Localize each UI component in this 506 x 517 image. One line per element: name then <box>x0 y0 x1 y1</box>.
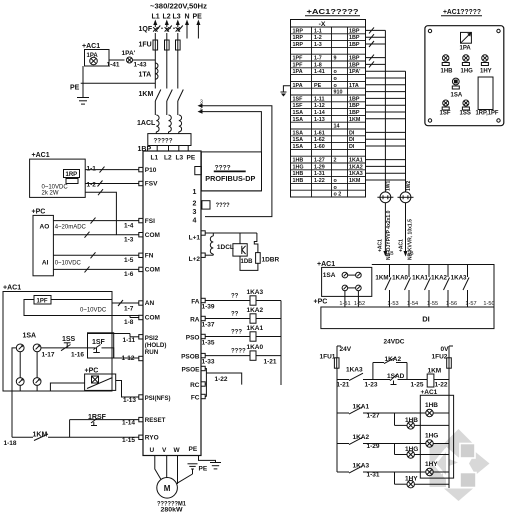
svg-text:1-12: 1-12 <box>314 103 325 109</box>
svg-text:1-22: 1-22 <box>314 178 325 184</box>
inverter right terminals FA RA PSO PSOB PSOE RC FC <box>201 298 205 302</box>
ammeter 1PA box <box>85 50 110 67</box>
svg-text:0~10VDC: 0~10VDC <box>80 308 107 314</box>
svg-text:1PF: 1PF <box>293 56 304 62</box>
svg-text:1PA': 1PA' <box>349 69 360 75</box>
wire 1-2 <box>85 183 139 185</box>
svg-text:PE: PE <box>193 14 203 21</box>
motor wire W <box>177 456 179 485</box>
svg-text:1SA: 1SA <box>293 144 304 150</box>
relay rail <box>280 301 282 386</box>
svg-text:1-51: 1-51 <box>339 301 350 307</box>
svg-text:1ACL: 1ACL <box>137 120 156 127</box>
svg-text:1-16: 1-16 <box>71 352 84 359</box>
wire 1-13 <box>50 383 84 391</box>
svg-text:1KM: 1KM <box>349 117 361 123</box>
svg-text:4~20mADC: 4~20mADC <box>55 225 87 231</box>
wire L+2 <box>205 254 213 256</box>
svg-text:PSOB: PSOB <box>181 354 200 361</box>
svg-text:L3: L3 <box>173 14 181 21</box>
svg-text:1TA: 1TA <box>139 72 152 79</box>
svg-text:1-52: 1-52 <box>354 301 365 307</box>
svg-text:1-27: 1-27 <box>367 413 380 420</box>
svg-text:+AC1: +AC1 <box>3 285 21 292</box>
svg-text:1TA: 1TA <box>349 83 359 89</box>
svg-text:1-35: 1-35 <box>202 340 215 347</box>
panel meter 1PA <box>461 32 472 43</box>
wire 1-17 <box>41 347 64 349</box>
input filter box (Chinese label) <box>148 134 191 146</box>
svg-text:1BP: 1BP <box>349 62 360 68</box>
svg-text:14: 14 <box>334 124 340 130</box>
svg-text:1DBR: 1DBR <box>262 257 280 264</box>
svg-text:1-14: 1-14 <box>314 110 325 116</box>
svg-text:1BP: 1BP <box>138 146 152 153</box>
svg-text:1-3: 1-3 <box>124 237 134 244</box>
svg-text:1PF: 1PF <box>37 299 48 305</box>
svg-text:COM: COM <box>145 232 160 239</box>
relay coil 1KA2 row <box>205 318 250 320</box>
svg-text:(HOLD): (HOLD) <box>145 342 167 349</box>
bus connector on pins 2-3 <box>202 201 210 209</box>
svg-text:1BP: 1BP <box>349 28 360 34</box>
svg-text:1FU2: 1FU2 <box>432 354 448 361</box>
panel lamp 1HB <box>443 55 449 61</box>
svg-text:1SAD: 1SAD <box>387 373 405 380</box>
svg-text:1SS: 1SS <box>62 336 76 343</box>
svg-text:????: ???? <box>215 165 231 172</box>
svg-text:1BP: 1BP <box>349 35 360 41</box>
wire 1-14 <box>97 419 139 421</box>
svg-text:0V: 0V <box>441 346 450 353</box>
svg-text:PE: PE <box>199 466 208 473</box>
svg-text:1QF: 1QF <box>139 26 153 33</box>
svg-text:1SA: 1SA <box>23 333 37 340</box>
selector switch 1SA box <box>322 267 372 296</box>
svg-text:+AC1: +AC1 <box>82 43 100 50</box>
svg-text:????: ???? <box>231 349 246 355</box>
table stubs to analog cable <box>366 29 386 31</box>
svg-text:1KA3: 1KA3 <box>451 275 467 282</box>
svg-text:1SA: 1SA <box>293 110 304 116</box>
svg-text:1: 1 <box>193 189 197 196</box>
svg-text:FSV: FSV <box>145 181 158 188</box>
aux contact 1KA3 to DI <box>467 265 469 278</box>
wire 1-3 to COM <box>53 234 138 236</box>
svg-text:1SA: 1SA <box>323 272 336 279</box>
svg-text:1HB: 1HB <box>441 69 454 75</box>
svg-text:1HB: 1HB <box>293 178 304 184</box>
svg-text:1-23: 1-23 <box>365 382 378 389</box>
svg-text:1-31: 1-31 <box>367 472 380 479</box>
svg-text:AI: AI <box>42 260 49 267</box>
panel lamp 1HG <box>463 55 469 61</box>
svg-text:910: 910 <box>334 90 343 96</box>
wire 1-1 <box>85 169 139 171</box>
panel selector 1SA <box>452 78 459 85</box>
panel screws <box>428 29 431 32</box>
motor wire U <box>155 456 161 480</box>
svg-text:1PA: 1PA <box>293 69 303 75</box>
svg-text:COM: COM <box>145 267 160 274</box>
junction to panel lamp 1HG <box>394 444 396 455</box>
braking unit 1DB <box>239 233 241 244</box>
analog cable vertical <box>384 30 386 192</box>
svg-text:1-37: 1-37 <box>202 322 215 329</box>
wire 1-23 <box>363 379 384 381</box>
svg-text:1KM: 1KM <box>349 178 361 184</box>
svg-text:1-55: 1-55 <box>427 301 438 307</box>
svg-text:1-13: 1-13 <box>314 117 325 123</box>
svg-text:1-25: 1-25 <box>411 382 424 389</box>
svg-text:1-21: 1-21 <box>264 359 277 366</box>
svg-text:1HG: 1HG <box>425 433 438 440</box>
svg-text:???: ??? <box>231 330 242 336</box>
svg-text:1SA: 1SA <box>293 117 304 123</box>
aux contact 1KA2 to DI <box>447 265 449 278</box>
svg-text:FA: FA <box>191 299 200 306</box>
svg-text:1SF: 1SF <box>293 96 304 102</box>
branch contact 1KA2 <box>337 443 349 445</box>
svg-text:DI: DI <box>349 144 355 150</box>
potentiometer 1RP box <box>30 159 86 197</box>
svg-text:PSI2: PSI2 <box>145 335 159 342</box>
svg-text:??: ?? <box>231 312 239 318</box>
motor M1 <box>157 478 178 499</box>
svg-text:1BP: 1BP <box>349 103 360 109</box>
svg-text:+AC1: +AC1 <box>399 239 405 252</box>
aux contact 1KA1 to DI <box>428 265 430 278</box>
svg-text:1-8: 1-8 <box>314 62 322 68</box>
selector switch 1SA contacts <box>16 344 24 352</box>
svg-text:1-6: 1-6 <box>124 271 134 278</box>
pin 1 wire <box>201 190 261 192</box>
svg-text:1-11: 1-11 <box>123 337 136 344</box>
svg-text:W: W <box>174 447 181 454</box>
svg-text:1SA: 1SA <box>293 130 304 136</box>
DC reactor 1DCL <box>210 236 213 254</box>
wire tap to PROFIBUS pin1 <box>198 109 203 113</box>
wire PE of CT circuit <box>82 66 84 83</box>
svg-text:1-22: 1-22 <box>435 382 448 389</box>
svg-text:24VDC: 24VDC <box>384 339 405 346</box>
svg-text:+PC: +PC <box>32 209 46 216</box>
svg-text:1-11: 1-11 <box>314 96 325 102</box>
panel devices box +AC1 <box>3 292 112 392</box>
svg-text:1KA3: 1KA3 <box>353 463 370 470</box>
svg-text:L2: L2 <box>164 155 172 162</box>
svg-text:1KM: 1KM <box>428 368 442 375</box>
svg-text:1-50: 1-50 <box>483 301 494 307</box>
svg-text:9: 9 <box>334 56 337 62</box>
svg-text:+PC: +PC <box>85 368 99 375</box>
aux contact 1KM to DI <box>389 265 391 278</box>
svg-text:PE: PE <box>70 85 80 92</box>
svg-text:1RP: 1RP <box>293 42 304 48</box>
svg-text:1RP: 1RP <box>66 172 78 178</box>
svg-text:2k 2W: 2k 2W <box>42 191 59 197</box>
svg-text:L+1: L+1 <box>189 235 201 242</box>
wire L+1 <box>205 232 257 234</box>
svg-text:RC: RC <box>190 382 200 389</box>
cable W1 down wire <box>384 203 386 251</box>
svg-text:1SF: 1SF <box>92 339 106 346</box>
svg-text:1KA1: 1KA1 <box>349 158 363 164</box>
braking loop wire <box>240 256 258 270</box>
svg-text:L1: L1 <box>152 14 160 21</box>
svg-text:N: N <box>185 14 190 21</box>
ammeter 1PA symbol <box>90 57 98 65</box>
svg-text:1-43: 1-43 <box>134 62 147 69</box>
svg-text:RA: RA <box>190 317 200 324</box>
svg-text:AO: AO <box>40 224 50 231</box>
svg-text:NB-KVVR, 10x1.5: NB-KVVR, 10x1.5 <box>408 219 414 260</box>
svg-text:P10: P10 <box>145 167 157 174</box>
svg-text:1BP: 1BP <box>349 42 360 48</box>
svg-text:4: 4 <box>193 218 197 225</box>
wire PSOE common <box>205 369 206 397</box>
svg-text:DI: DI <box>349 137 355 143</box>
svg-text:1-56: 1-56 <box>446 301 457 307</box>
svg-text:1RP,1PF: 1RP,1PF <box>476 111 499 117</box>
svg-text:M: M <box>164 484 171 493</box>
svg-text:PE: PE <box>187 155 196 162</box>
wire tap to PROFIBUS pin4 <box>198 104 203 108</box>
wire 1-22 <box>434 379 449 381</box>
svg-text:1BP: 1BP <box>349 56 360 62</box>
relay coil 1KA0 row <box>205 355 250 357</box>
svg-text:PE: PE <box>189 446 198 453</box>
ground symbol <box>82 83 84 97</box>
svg-text:+AC1: +AC1 <box>378 239 384 252</box>
svg-text:3: 3 <box>200 100 203 106</box>
DI common bus <box>372 265 494 308</box>
incoming feeder arrows <box>153 20 157 26</box>
svg-text:1-41: 1-41 <box>314 69 325 75</box>
svg-text:????: ???? <box>216 202 230 209</box>
selector linkage wires <box>19 352 21 378</box>
svg-text:1HB: 1HB <box>293 171 304 177</box>
svg-text:1DB: 1DB <box>241 259 254 265</box>
svg-text:1KA1: 1KA1 <box>412 275 428 282</box>
braking resistor 1DBR <box>254 233 258 253</box>
svg-text:COM: COM <box>145 315 160 322</box>
svg-text:1KA0: 1KA0 <box>247 344 264 351</box>
branch contact 1KA1 <box>337 412 349 414</box>
wire 1-43 <box>133 59 156 61</box>
svg-text:1-1: 1-1 <box>87 166 97 173</box>
svg-text:+AC1?????: +AC1????? <box>307 9 359 16</box>
svg-text:FSI: FSI <box>145 218 155 225</box>
svg-text:1-29: 1-29 <box>314 164 325 170</box>
svg-text:1RP: 1RP <box>293 35 304 41</box>
potentiometer 1PF <box>34 296 51 305</box>
svg-text:1KA2: 1KA2 <box>349 164 363 170</box>
panel lamp 1HY <box>482 55 488 61</box>
svg-text:FN: FN <box>145 253 154 260</box>
svg-text:1-14: 1-14 <box>122 420 135 427</box>
svg-text:1-3: 1-3 <box>314 42 322 48</box>
svg-text:PSOE: PSOE <box>181 367 200 374</box>
svg-text:+PC: +PC <box>314 299 328 306</box>
filter output stubs <box>156 146 158 152</box>
wire from selector to 1KM aux <box>12 348 16 437</box>
panel button 1SS <box>463 100 469 106</box>
svg-text:1-41: 1-41 <box>107 62 120 69</box>
svg-text:1DCL: 1DCL <box>217 244 234 251</box>
branch contact 1KA3 <box>337 471 349 473</box>
svg-text:?????: ????? <box>154 138 173 145</box>
L+2 terminal <box>201 253 205 257</box>
svg-text:1PA: 1PA <box>460 46 472 52</box>
svg-text:RYO: RYO <box>145 435 159 442</box>
svg-text:L2: L2 <box>163 14 171 21</box>
svg-text:1BP: 1BP <box>349 96 360 102</box>
panel button 1SF <box>443 100 449 106</box>
wire 1-5 <box>53 254 138 256</box>
svg-text:PSO: PSO <box>186 335 200 342</box>
svg-text:??: ?? <box>231 294 239 300</box>
junction to panel lamp 1HY <box>394 472 396 484</box>
svg-text:1KA1: 1KA1 <box>247 325 264 332</box>
wire RC <box>205 383 206 385</box>
svg-text:1W1: 1W1 <box>386 181 392 192</box>
svg-text:1-33: 1-33 <box>202 359 215 366</box>
svg-text:1-18: 1-18 <box>4 440 17 447</box>
PLC analog IO box <box>33 215 53 275</box>
svg-text:1-7: 1-7 <box>314 56 322 62</box>
svg-text:1-29: 1-29 <box>367 443 380 450</box>
svg-text:1HY: 1HY <box>425 461 438 468</box>
svg-text:1SS: 1SS <box>460 111 471 117</box>
svg-text:1-39: 1-39 <box>202 304 215 311</box>
svg-text:1KM: 1KM <box>375 275 388 282</box>
svg-text:U: U <box>150 447 155 454</box>
svg-text:1KA2: 1KA2 <box>353 434 370 441</box>
terminal strip -X table <box>291 20 366 198</box>
wire 1-22 stub <box>206 373 241 385</box>
svg-text:~380/220V,50Hz: ~380/220V,50Hz <box>150 4 208 11</box>
svg-text:L+2: L+2 <box>189 256 201 263</box>
svg-text:1HG: 1HG <box>293 164 304 170</box>
wire N <box>186 24 188 39</box>
svg-text:1SF: 1SF <box>440 111 451 117</box>
svg-text:1-7: 1-7 <box>124 306 134 313</box>
wire 1-6 <box>53 268 138 270</box>
wire 1-52 <box>357 291 359 307</box>
wire 1-12 <box>102 348 139 358</box>
svg-text:24V: 24V <box>340 346 352 353</box>
cable W2 down wire <box>405 203 407 251</box>
svg-text:1-17: 1-17 <box>42 352 55 359</box>
watermark logo (decorative) <box>430 429 490 501</box>
PLC digital input card DI <box>321 307 494 329</box>
inverter PE ground <box>199 456 216 463</box>
panel door outline <box>425 26 504 126</box>
relay coil 1KA1 row <box>205 336 250 338</box>
wire FC <box>205 396 206 398</box>
L+1 terminal <box>201 231 205 235</box>
svg-text:1PF: 1PF <box>293 62 304 68</box>
svg-text:2: 2 <box>334 158 337 164</box>
svg-text:PSI(NFS): PSI(NFS) <box>145 396 171 402</box>
svg-text:1HY: 1HY <box>480 69 492 75</box>
svg-text:DI: DI <box>349 130 355 136</box>
svg-text:1HG: 1HG <box>461 69 474 75</box>
svg-text:1-8: 1-8 <box>124 319 134 326</box>
svg-text:AN: AN <box>145 300 155 307</box>
svg-text:RESET: RESET <box>145 417 166 424</box>
PROFIBUS-DP interface box <box>201 152 261 191</box>
motor wire V <box>166 456 168 478</box>
svg-text:1-31: 1-31 <box>314 171 325 177</box>
svg-text:1-2: 1-2 <box>314 35 322 41</box>
svg-text:1-15: 1-15 <box>122 437 135 444</box>
svg-text:1SF: 1SF <box>293 103 304 109</box>
panel pots 1RP,1PF <box>478 77 493 110</box>
svg-text:1KA2: 1KA2 <box>247 307 264 314</box>
svg-text:DI: DI <box>422 315 430 324</box>
wire 1-4 <box>53 220 138 222</box>
svg-text:PE: PE <box>314 83 322 89</box>
relay coil 1KA3 row <box>205 300 250 302</box>
svg-text:1KA1: 1KA1 <box>353 404 370 411</box>
PROFIBUS connector stub <box>195 167 202 175</box>
svg-text:1KM: 1KM <box>139 91 154 98</box>
wire 1-7 <box>51 299 112 301</box>
svg-text:1HG: 1HG <box>405 446 418 453</box>
svg-text:1HB: 1HB <box>293 158 304 164</box>
wire 1-8 <box>24 300 139 316</box>
junction to panel lamp 1HB <box>394 413 396 425</box>
svg-text:1SA: 1SA <box>293 137 304 143</box>
svg-text:+AC1?????: +AC1????? <box>443 9 481 16</box>
wire 1-15 / RYO run feedback <box>69 420 71 438</box>
inverter left terminals <box>139 167 143 171</box>
svg-text:1-60: 1-60 <box>314 144 325 150</box>
wire 1-51 <box>344 291 346 307</box>
aux contact 1KA0 to DI <box>408 265 410 278</box>
svg-text:FC: FC <box>191 395 200 402</box>
svg-text:2: 2 <box>193 201 197 208</box>
svg-text:3: 3 <box>193 209 197 216</box>
svg-text:1PA: 1PA <box>293 83 303 89</box>
wire PE <box>197 24 199 39</box>
wire 1-3 from 1RP <box>85 192 116 235</box>
svg-text:1-54: 1-54 <box>407 301 418 307</box>
svg-text:RUN: RUN <box>145 349 159 356</box>
table stubs to control cable <box>366 70 406 72</box>
svg-text:1-61: 1-61 <box>314 130 325 136</box>
svg-text:PROFIBUS-DP: PROFIBUS-DP <box>205 174 255 183</box>
svg-text:0~10VDC: 0~10VDC <box>55 261 82 267</box>
svg-text:1FU: 1FU <box>139 42 152 49</box>
svg-text:1BP: 1BP <box>349 110 360 116</box>
svg-text:1KA2: 1KA2 <box>431 275 447 282</box>
svg-text:L3: L3 <box>176 155 184 162</box>
svg-text:1-62: 1-62 <box>314 137 325 143</box>
svg-text:1PA': 1PA' <box>122 50 136 57</box>
svg-text:1-22: 1-22 <box>215 376 228 383</box>
motor PE ground <box>188 463 198 465</box>
svg-text:1-21: 1-21 <box>336 382 349 389</box>
svg-text:1-4: 1-4 <box>124 223 134 230</box>
svg-text:1HY: 1HY <box>405 476 418 483</box>
svg-text:1-57: 1-57 <box>465 301 476 307</box>
svg-text:1-27: 1-27 <box>314 158 325 164</box>
wire 1-11 <box>87 334 89 348</box>
svg-text:1-1: 1-1 <box>314 28 322 34</box>
